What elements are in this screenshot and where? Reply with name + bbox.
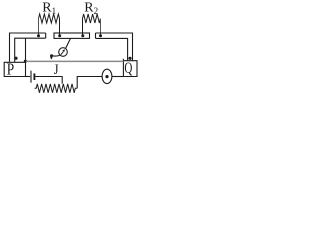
resistor R1: [39, 14, 60, 23]
resistor R2: [83, 14, 101, 23]
node dot R1-right strip terminal: [58, 34, 61, 37]
terminal box P: [4, 62, 25, 76]
node dot R1-left strip terminal: [37, 34, 40, 37]
node dot right strip to Q: [128, 57, 131, 60]
bridge wire PQ: [26, 60, 123, 62]
terminal box Q: [123, 59, 137, 77]
wire galvanometer lower lead to jockey: [53, 54, 60, 57]
wire rheostat to key: [77, 77, 102, 89]
right copper strip: [96, 33, 133, 61]
svg-text:P: P: [7, 60, 14, 79]
galvanometer G: [59, 48, 68, 57]
node dot R2-right strip terminal: [99, 34, 102, 37]
battery cell long plate: [30, 71, 32, 83]
wire galvanometer upper lead: [66, 38, 71, 48]
svg-text:R1: R1: [42, 0, 56, 16]
rheostat winding: [35, 84, 78, 93]
wire key to Q box: [112, 76, 123, 78]
wire riser left strip to bridge wire: [25, 38, 27, 62]
node dot left strip to P: [14, 57, 17, 60]
left copper strip: [10, 33, 46, 62]
galvanometer needle: [61, 52, 64, 55]
galvanometer needle arrowhead: [62, 49, 65, 52]
middle copper strip: [54, 33, 90, 38]
wire R2 left lead: [82, 19, 84, 35]
jockey arrowhead on bridge wire: [50, 54, 53, 59]
node dot bridge wire left end: [24, 60, 27, 63]
wire P box to battery: [26, 76, 31, 78]
wire R1 right lead: [59, 19, 61, 35]
wire R1 left lead: [38, 19, 40, 35]
svg-text:J: J: [54, 62, 59, 78]
battery cell short plate: [33, 73, 35, 80]
wire battery to rheostat slider: [35, 77, 62, 84]
wire R2 right lead: [100, 19, 102, 35]
key K (plug key): [102, 69, 112, 83]
key center dot: [105, 75, 108, 78]
svg-text:R2: R2: [84, 0, 98, 16]
svg-text:Q: Q: [124, 60, 132, 77]
node dot R2-left strip terminal: [81, 34, 84, 37]
